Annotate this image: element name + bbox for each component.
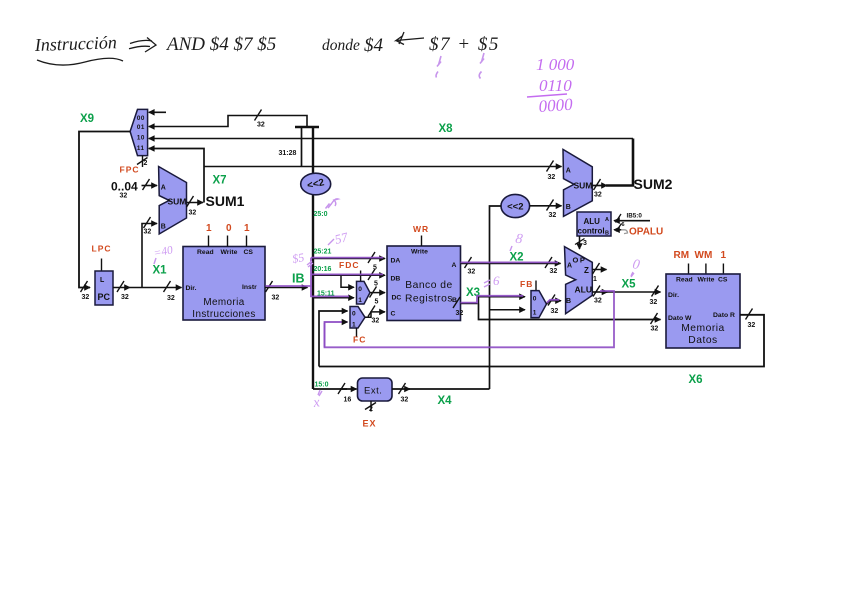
adder SUM2 [563, 149, 592, 216]
svg-text:Instrucciones: Instrucciones [192, 309, 255, 320]
IB vertical bus [313, 195, 347, 390]
svg-text:$7 + $5: $7 + $5 [429, 34, 500, 55]
ext sign extender [358, 378, 393, 401]
wire IB instruction bus [265, 281, 308, 302]
handwritten double arrow [129, 38, 156, 53]
svg-text:FPC: FPC [120, 165, 140, 175]
svg-text:2: 2 [369, 406, 373, 413]
svg-text:31:28: 31:28 [279, 150, 297, 157]
svg-text:32: 32 [144, 229, 152, 236]
handwritten purple $5 near IB [291, 250, 313, 267]
wire A output X2 to ALU A [461, 257, 561, 276]
svg-text:B: B [566, 204, 571, 211]
wire FC output to C [365, 306, 385, 325]
svg-text:X9: X9 [80, 113, 94, 125]
svg-text:8: 8 [514, 232, 523, 248]
adder SUM1 [159, 167, 187, 235]
svg-text:DA: DA [391, 258, 401, 265]
ALU control [577, 212, 611, 237]
handwritten note: Instruccion [33, 32, 123, 65]
wire OPALU to ALU control B [614, 224, 628, 234]
svg-text:1: 1 [352, 322, 356, 329]
svg-text:WR: WR [413, 224, 429, 234]
purple scribble near 25:0 [326, 199, 339, 209]
svg-text:32: 32 [167, 295, 175, 302]
svg-text:Ext.: Ext. [364, 386, 382, 397]
svg-text:SUM: SUM [574, 181, 593, 191]
svg-text:WM: WM [695, 250, 713, 261]
svg-text:32: 32 [121, 294, 129, 301]
svg-text:RM: RM [674, 250, 690, 261]
svg-text:=40: =40 [153, 244, 175, 260]
wire Ext output X4 [392, 383, 490, 404]
register PC [95, 259, 113, 306]
svg-text:5: 5 [375, 299, 379, 306]
wire writeback to mux FC input 1 (purple) [325, 322, 348, 347]
handwritten purple x near 15:0 [311, 390, 322, 411]
svg-text:FC: FC [353, 335, 366, 345]
svg-text:0: 0 [226, 223, 232, 234]
svg-text:IB5:0: IB5:0 [627, 212, 643, 219]
handwritten purple tick under $7 [436, 56, 441, 78]
svg-text:A: A [566, 168, 571, 175]
wire SUM2 output [592, 139, 633, 199]
wire mux output to PC [79, 132, 130, 288]
wire X4 vertical to shifter [490, 206, 502, 389]
svg-text:control: control [578, 227, 605, 236]
wire B output to Dato W [479, 304, 661, 320]
svg-text:X1: X1 [153, 265, 168, 277]
svg-text:Memoria: Memoria [681, 323, 725, 334]
handwritten purple binary column [527, 55, 575, 116]
handwritten purple 57 [328, 229, 350, 247]
svg-text:x: x [311, 395, 321, 411]
svg-text:1 000: 1 000 [536, 55, 575, 74]
svg-text:X6: X6 [689, 374, 703, 386]
svg-text:0: 0 [533, 296, 537, 303]
wire Dato R output X6 [319, 309, 764, 367]
svg-text:Banco de: Banco de [405, 280, 453, 291]
handwritten purple 0 near X5 [631, 257, 641, 277]
svg-text:X3: X3 [466, 287, 480, 299]
branch 20:16 to mux FDC input 0 [341, 275, 354, 287]
wire 15:0 to Ext [315, 382, 357, 404]
svg-text:32: 32 [550, 268, 558, 275]
svg-text:X5: X5 [622, 279, 637, 291]
memoria datos control stubs [689, 264, 724, 275]
svg-text:Dato W: Dato W [668, 315, 692, 322]
memoria instrucciones control stubs [209, 236, 247, 247]
wire jump address to mux input 01 [149, 116, 307, 128]
memoria instrucciones [183, 247, 265, 321]
svg-text:0..04: 0..04 [111, 180, 138, 194]
wire B output X3 to mux FB input 0 [453, 297, 525, 317]
svg-text:32: 32 [456, 310, 464, 317]
svg-text:32: 32 [650, 299, 658, 306]
svg-text:10: 10 [137, 135, 145, 142]
handwritten purple tick under $5 [479, 53, 484, 79]
svg-text:16: 16 [344, 397, 352, 404]
svg-text:Dir.: Dir. [668, 292, 679, 299]
svg-text:CS: CS [718, 277, 728, 284]
svg-text:32: 32 [372, 318, 380, 325]
svg-text:SUM: SUM [168, 197, 187, 207]
memoria datos [666, 274, 740, 348]
shifter <<2 jump [301, 173, 331, 195]
svg-text:32: 32 [272, 295, 280, 302]
svg-text:32: 32 [401, 397, 409, 404]
svg-text:ALU: ALU [584, 217, 601, 226]
svg-text:1: 1 [721, 250, 727, 261]
ALU [565, 247, 593, 314]
svg-text:A: A [452, 262, 457, 269]
wire SUM1 X7 to mux input 11 [149, 149, 204, 203]
svg-text:Z: Z [584, 266, 589, 275]
svg-text:B: B [605, 231, 609, 237]
svg-text:B: B [566, 298, 571, 305]
svg-text:$5: $5 [291, 250, 305, 266]
svg-text:Dir.: Dir. [186, 285, 197, 292]
mux FB [531, 281, 547, 318]
wire FDC output to DC [370, 287, 386, 306]
svg-text:0110: 0110 [539, 76, 572, 95]
svg-text:01: 01 [137, 124, 145, 131]
svg-text:Write: Write [221, 249, 238, 256]
svg-text:1: 1 [533, 310, 537, 317]
svg-text:Write: Write [698, 277, 715, 284]
svg-text:SUM1: SUM1 [206, 193, 245, 209]
svg-text:32: 32 [594, 298, 602, 305]
svg-text:57: 57 [333, 229, 350, 247]
mux FC [350, 307, 365, 338]
wire IB5:0 to ALU control A [614, 212, 650, 228]
svg-text:L: L [100, 277, 105, 284]
FPC select stub [137, 156, 148, 167]
svg-text:<<2: <<2 [507, 201, 523, 212]
svg-text:0: 0 [358, 286, 362, 293]
svg-text:2: 2 [144, 160, 148, 167]
svg-text:X4: X4 [438, 395, 453, 407]
svg-text:Instr: Instr [242, 284, 257, 291]
tap 15:11 to mux FDC input 1 [313, 291, 354, 298]
svg-text:Write: Write [411, 249, 428, 256]
svg-text:0: 0 [352, 311, 356, 318]
svg-text:OPALU: OPALU [629, 227, 663, 238]
svg-text:Dato R: Dato R [713, 312, 735, 319]
svg-text:15:0: 15:0 [315, 382, 329, 389]
shifter <<2 branch [501, 194, 530, 217]
svg-text:32: 32 [548, 174, 556, 181]
svg-text:32: 32 [120, 193, 128, 200]
wire shifter to SUM2 B [530, 200, 562, 220]
svg-text:PC: PC [98, 292, 111, 302]
svg-text:AND $4 $7 $5: AND $4 $7 $5 [165, 34, 276, 55]
svg-text:25:21: 25:21 [314, 249, 332, 256]
svg-text:11: 11 [137, 145, 145, 152]
svg-text:EX: EX [363, 419, 377, 429]
wire PC tap to SUM1 B [142, 217, 157, 288]
wire SUM1 output X7 [187, 196, 204, 217]
svg-text:32: 32 [594, 192, 602, 199]
svg-text:Read: Read [676, 277, 693, 284]
svg-text:FB: FB [520, 279, 533, 289]
svg-text:32: 32 [551, 308, 559, 315]
svg-text:0: 0 [631, 257, 640, 273]
svg-text:ALU: ALU [575, 285, 592, 295]
svg-text:B: B [161, 224, 166, 231]
ALU Z output [592, 263, 606, 283]
svg-text:donde: donde [322, 37, 360, 54]
svg-text:IB: IB [292, 272, 305, 286]
svg-text:OP: OP [573, 256, 587, 265]
svg-text:32: 32 [468, 269, 476, 276]
svg-text:FDC: FDC [339, 260, 359, 270]
svg-text:Registros: Registros [405, 294, 453, 305]
svg-text:$4: $4 [364, 35, 384, 56]
svg-text:20:16: 20:16 [314, 266, 332, 273]
svg-text:1: 1 [244, 223, 250, 234]
purple annotated path IB [266, 258, 615, 348]
svg-text:X7: X7 [213, 175, 227, 187]
svg-text:6: 6 [622, 222, 625, 228]
svg-text:Instrucción: Instrucción [33, 32, 117, 55]
svg-text:C: C [391, 311, 396, 318]
handwritten purple 40 near X1 [153, 244, 175, 264]
svg-text:Memoria: Memoria [203, 297, 244, 308]
svg-text:00: 00 [137, 115, 145, 122]
banco de registros [387, 246, 461, 321]
wire X6 to mux FC input 0 [319, 311, 348, 367]
svg-text:32: 32 [257, 122, 265, 129]
svg-text:32: 32 [189, 210, 197, 217]
mux FPC (PC source select) [130, 109, 148, 155]
svg-text:32: 32 [748, 322, 756, 329]
concat bar 31:28 jump address [295, 127, 319, 174]
svg-text:32: 32 [549, 212, 557, 219]
constant 0..04 wire to SUM1 A [111, 179, 157, 200]
svg-text:6: 6 [493, 273, 500, 288]
svg-text:1: 1 [206, 223, 212, 234]
svg-text:DC: DC [392, 295, 402, 302]
svg-text:LPC: LPC [92, 244, 112, 254]
svg-text:A: A [161, 185, 166, 192]
tap 25:21 to DA [313, 249, 385, 272]
handwritten purple 8 near X2 [510, 232, 523, 251]
wire FB output to ALU B [547, 295, 562, 316]
svg-text:X8: X8 [439, 123, 454, 135]
svg-text:1: 1 [358, 297, 362, 304]
svg-text:A: A [567, 263, 572, 270]
Ext control stub [365, 401, 376, 413]
svg-text:25:0: 25:0 [314, 211, 328, 218]
mux FDC [357, 271, 371, 305]
svg-text:SUM2: SUM2 [634, 176, 673, 192]
handwritten purple 6 near X3 [484, 273, 500, 288]
wire PC to Memoria Instrucciones X1 bus [113, 281, 182, 302]
wire mux input 00 stub [149, 111, 166, 113]
svg-text:Datos: Datos [688, 335, 717, 346]
handwritten note: $4 <- $7 + $5 [364, 32, 500, 56]
svg-text:DB: DB [391, 276, 401, 283]
wire X4 to mux FB input 1 [490, 309, 526, 311]
svg-text:CS: CS [244, 249, 254, 256]
wire SUM2 to mux input 10 [149, 138, 633, 140]
svg-text:32: 32 [651, 326, 659, 333]
svg-text:3: 3 [583, 240, 587, 247]
svg-text:0000: 0000 [538, 95, 574, 116]
svg-text:Read: Read [197, 249, 214, 256]
tap 20:16 to DB [313, 266, 385, 288]
wire ALU control output OP [575, 236, 587, 249]
svg-text:1: 1 [593, 276, 597, 283]
svg-text:A: A [605, 217, 609, 223]
svg-text:32: 32 [82, 294, 90, 301]
wire X8 SUM1 to SUM2 A [204, 161, 562, 182]
wire ALU output X5 to Dir [592, 286, 660, 307]
